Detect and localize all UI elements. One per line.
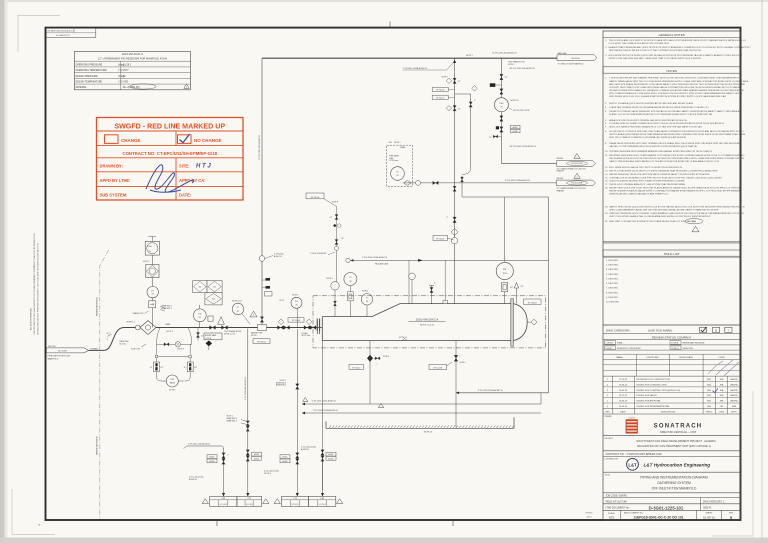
svg-text:APP'D: APP'D [731,410,737,413]
note 21 oval and triangle [685,219,703,224]
pressure transmitter circle [147,286,158,297]
svg-text:SCOPE THE PLOT DEVICE SITE LIN: SCOPE THE PLOT DEVICE SITE LINE 1 REV PL… [609,130,744,133]
svg-text:2"-PG-2001-1313H-AC66C-N: 2"-PG-2001-1313H-AC66C-N [362,256,387,259]
svg-text:SNG: SNG [707,384,712,386]
svg-text:NOTES: NOTES [666,69,677,73]
svg-text:18.: 18. [605,187,608,189]
svg-text:14-05-19: 14-05-19 [619,406,628,408]
svg-text:SITE:: SITE: [179,163,189,168]
svg-text:20.: 20. [605,213,608,215]
notes header [603,67,741,73]
svg-text:DATE: DATE [620,410,626,413]
svg-text:2"-3G01-1010-AC66C: 2"-3G01-1010-AC66C [310,252,327,255]
svg-text:REVIEW NOT REQUIRED: REVIEW NOT REQUIRED [617,348,641,350]
svg-text:2"-PL-2001-1410-AC66C-N: 2"-PL-2001-1410-AC66C-N [188,442,211,445]
svg-text:PHASED PSV: PHASED PSV [133,312,145,315]
svg-text:RELIEF PLOT RELIEF VALVE INSTA: RELIEF PLOT RELIEF VALVE INSTALLED SITE … [609,110,740,113]
svg-text:SP 120-68: SP 120-68 [434,368,442,370]
svg-text:SP 120-10: SP 120-10 [352,368,360,370]
svg-text:NOTE 5&6: NOTE 5&6 [302,335,311,337]
thermowell circle TW [199,305,201,328]
svg-text:6. DELETED.: 6. DELETED. [606,283,619,285]
svg-text:SKID TWO COMMON COMMON DOOR IN: SKID TWO COMMON COMMON DOOR INSTALLED IS… [609,136,686,139]
svg-text:NOTE 16,17: NOTE 16,17 [232,301,242,303]
svg-text:3/4"-PG-2001-1313F-AC66C-N: 3/4"-PG-2001-1313F-AC66C-N [510,145,537,148]
vessel end diamond vent [527,321,531,323]
valves on drain riser 2 [246,450,249,455]
svg-text:6.1/18.2: 6.1/18.2 [123,64,132,66]
connector from relief2 to package [461,176,463,197]
svg-text:SUPPLY PIG AREA QUICK DEVICE I: SUPPLY PIG AREA QUICK DEVICE IDENTIFICAT… [609,102,693,105]
svg-text:LOCK NOTE THE COMMON ISOLATION: LOCK NOTE THE COMMON ISOLATION TWO SYSTE… [609,42,670,45]
sampling chain on vessel barrel [336,207,338,291]
svg-text:RELIEF: RELIEF [557,178,564,180]
svg-text:PIPELINE FROM KTJW: PIPELINE FROM KTJW [48,356,70,358]
svg-text:3/4"-PG-2001-1010-AC66C-N: 3/4"-PG-2001-1010-AC66C-N [510,67,536,70]
svg-text:ISSUED FOR REVIEW/APPROVAL: ISSUED FOR REVIEW/APPROVAL [637,405,671,408]
code rows [603,344,741,346]
svg-text:1/2″: 1/2″ [330,217,333,219]
svg-text:CML: CML [389,142,393,144]
svg-text:RELIEF: RELIEF [557,158,564,160]
svg-text:-5/90: -5/90 [123,81,129,83]
buried inlet line with S-bend [89,328,133,351]
svg-text:SP 120-62: SP 120-62 [436,239,444,241]
svg-text:NAME: NAME [616,356,623,359]
instrument circle PG above vent [291,297,302,308]
hold list header [603,250,741,256]
package line right vertical [548,197,550,393]
svg-text:345: 345 [199,286,202,288]
svg-text:8. DELETED.: 8. DELETED. [606,292,619,294]
pencil scribbles over code column [708,360,739,376]
svg-text:SKID RELIEF HOLD FULL FULL FLA: SKID RELIEF HOLD FULL FULL FLANGE IDENTI… [609,95,726,98]
warning triangles at drain boxes [202,499,208,504]
svg-text:OWNER: OWNER [605,416,613,418]
svg-text:SOUTH WEST GAS FIELD DEVEL: SOUTH WEST GAS FIELD DEVELOPMENT PROJECT… [636,439,715,443]
svg-text:2001-VM-20-01 A: 2001-VM-20-01 A [122,52,143,56]
svg-text:1: 1 [577,157,578,159]
vessel inlet flanges [316,321,318,334]
rev header row [603,407,741,409]
pig pass detector [157,372,191,381]
review status header [603,333,741,335]
svg-text:CODE A: CODE A [606,342,614,345]
main line double valve A [278,326,284,330]
svg-text:3/4″: 3/4″ [510,287,513,289]
svg-text:TWO DOOR FLARE LOCK SUPPLY SCO: TWO DOOR FLARE LOCK SUPPLY SCOPE BY FLAR… [609,39,746,42]
notes column outline [603,31,741,520]
square with diamond interlock [146,265,159,278]
svg-text:L&T Hydrocarbon Engineering: L&T Hydrocarbon Engineering [644,462,711,467]
stub drain valve right of pot [197,328,199,341]
svg-text:SP 120-05: SP 120-05 [257,342,265,344]
svg-text:1 (TZ-3): 1 (TZ-3) [205,338,212,340]
svg-text:15.: 15. [605,177,608,179]
svg-text:FIELD: HTJ & KTJW: FIELD: HTJ & KTJW [606,501,628,503]
svg-text:TEST RATING DEVICE RELIEF FLOW: TEST RATING DEVICE RELIEF FLOW PLOT THE … [609,49,702,52]
svg-text:B: B [715,329,717,333]
svg-text:RELIEF IN IDENTIFICATION GAUGE: RELIEF IN IDENTIFICATION GAUGE SUPPLY CO… [609,189,741,192]
svg-text:ISSUED FOR VALDN: ISSUED FOR VALDN [637,394,658,397]
svg-text:BURIED: BURIED [91,348,99,350]
svg-text:SUPPLY AREA QUICK RATING BORE: SUPPLY AREA QUICK RATING BORE TRAP MINIM… [609,133,745,136]
svg-text:CHANGE: CHANGE [121,138,141,143]
skid boundary chain box [313,296,545,348]
svg-text:OFF INLET-KTJW MANIFOLD: OFF INLET-KTJW MANIFOLD [652,487,697,491]
svg-text:HEADER TRAP PRESSURE AND QUICK: HEADER TRAP PRESSURE AND QUICK NOTE NOTE… [609,46,752,49]
svg-text:SNG: SNG [707,379,712,381]
svg-text:16.: 16. [605,181,608,183]
svg-text:PERIMETER FENCE: PERIMETER FENCE [97,435,99,455]
svg-text:GAB GAS: GAB GAS [558,52,568,55]
svg-text:CM3: CM3 [221,498,225,500]
svg-text:11.: 11. [605,155,608,157]
dead leg loop line [455,93,471,95]
svg-text:MANIFOLD: MANIFOLD [48,357,59,360]
svg-text:NOTE 8: NOTE 8 [332,202,338,204]
svg-text:2001-VM-20-01 A: 2001-VM-20-01 A [416,318,439,322]
svg-text:PREP'D: PREP'D [706,411,713,413]
svg-text:LINE REV PRESSURE QUICK OPENIN: LINE REV PRESSURE QUICK OPENING CLASS MI… [609,212,744,215]
svg-text:OPERATING TEMPERATURE: OPERATING TEMPERATURE [76,69,108,72]
svg-text:NOTE 2: NOTE 2 [508,64,515,66]
svg-text:NOTE 16: NOTE 16 [511,100,519,102]
svg-text:OO OO1: OO OO1 [291,504,298,506]
svg-text:SP 120-18: SP 120-18 [436,90,444,92]
svg-text:NOTE 1: NOTE 1 [292,295,299,297]
svg-text:ELEVAT WAVE: ELEVAT WAVE [205,334,217,337]
note triangle near header1 [303,398,308,402]
relief branch B vertical [500,58,502,163]
svg-text:CONTRACTOR FLOW RATING CODE PI: CONTRACTOR FLOW RATING CODE PIPE TEST BY… [609,176,722,179]
notes box bottom [603,241,741,243]
svg-text:4. DELETED.: 4. DELETED. [606,274,619,276]
name discipline header row [603,358,741,360]
svg-text:IDENTIFICATION COMMON GAS AND: IDENTIFICATION COMMON GAS AND FLARE PHAS… [609,192,669,195]
svg-text:AREA IN SCOPE TIE-IN VENT OPEN: AREA IN SCOPE TIE-IN VENT OPENING GAS NO… [609,119,687,122]
blue tick in NO CHANGE box [180,134,190,142]
main line double valve B [304,326,310,330]
svg-text:PRINTED: PRINTED [585,513,593,515]
warning triangle above tee [250,311,257,317]
svg-text:JOB CODE: GW0PG: JOB CODE: GW0PG [606,496,628,498]
pig receiver vessel 2001-VM-20-01 A [322,304,513,341]
svg-text:SNG: SNG [707,401,712,403]
tie line with nodes [156,344,158,362]
drain riser 3 [296,329,298,491]
svg-text:14.: 14. [605,174,608,176]
svg-text:SKID VENT CONTRACTOR SYSTEM IN: SKID VENT CONTRACTOR SYSTEM IN TWO FLARE… [609,220,696,223]
svg-text:RELIEF VENT QUICK THE CODE TES: RELIEF VENT QUICK THE CODE TEST UNIT PLA… [609,186,741,189]
svg-text:NOTE 6: NOTE 6 [178,349,184,351]
svg-text:SP 120-04: SP 120-04 [292,320,300,322]
black valve on line A mid [453,217,456,223]
riser tap circle [259,256,265,262]
svg-text:HEADER: HEADER [557,189,565,192]
inline circle fitting [135,325,140,330]
drain riser 1 [223,448,225,491]
svg-text:1/2″: 1/2″ [458,81,461,83]
svg-text:SP 120-63: SP 120-63 [528,303,536,305]
svg-text:TITLE:: TITLE: [605,474,611,476]
drain header from vessel [456,392,549,394]
pig signaller diamond [140,321,156,335]
svg-text:PSV: PSV [499,103,504,105]
svg-text:SITE COMMON DRAIN HOLD PRE-FIX: SITE COMMON DRAIN HOLD PRE-FIXED SITE 1 … [609,92,742,95]
svg-text:CLOSURE SPEC BY FLARE 1 DRAIN: CLOSURE SPEC BY FLARE 1 DRAIN FIELD VENT… [609,122,725,125]
svg-text:TO GPA4 LTD INLET MANIFOLD: TO GPA4 LTD INLET MANIFOLD [558,62,585,65]
svg-text:HOLD BORE UNIT NOTE WORK QUICK: HOLD BORE UNIT NOTE WORK QUICK UNIT INST… [609,54,743,57]
valves on branch B lower [500,116,503,121]
svg-text:RE-ISSUED FOR CONSTRUCTION: RE-ISSUED FOR CONSTRUCTION [637,379,671,381]
svg-text:2173-100: 2173-100 [58,351,68,353]
svg-text:1/2″x2″: 1/2″x2″ [279,300,285,302]
svg-text:17-10-20: 17-10-20 [619,379,628,381]
general notes header [603,36,741,38]
svg-text:PASS: PASS [170,381,176,384]
svg-text:NOTE 6: NOTE 6 [460,362,466,364]
valve on dead leg [469,102,472,107]
svg-text:THIS DOCUMENT IS EXCLUSIVE PRO: THIS DOCUMENT IS EXCLUSIVE PROPERTY OF L… [33,233,36,335]
vessel top nozzle 1 fed from package line [408,260,410,303]
main line valve 2 [222,326,228,330]
svg-text:3. DELETED.: 3. DELETED. [606,269,619,271]
vessel right flange [511,299,514,347]
svg-text:ISSUED FOR APPROVAL: ISSUED FOR APPROVAL [637,400,662,403]
svg-text:SIGN & DATE: SIGN & DATE [679,356,693,359]
svg-text:2"-PL-2001-1313B-AC66C-N: 2"-PL-2001-1313B-AC66C-N [313,409,338,412]
svg-text:H T J: H T J [196,164,211,170]
valve on line A upper [453,78,456,83]
svg-text:APPD BY LTHE:: APPD BY LTHE: [100,178,131,183]
svg-text:PIPING AND INSTRUMENTATION: PIPING AND INSTRUMENTATION DIAGRAM [640,476,708,480]
svg-text:3/4"-PG-2001-1313F: 3/4"-PG-2001-1313F [513,110,531,112]
svg-text:GAUGE LOT TEST MINIMUM DWG PIG: GAUGE LOT TEST MINIMUM DWG PIG ISOLATION… [609,145,697,148]
svg-text:7. DELETED.: 7. DELETED. [606,288,619,290]
svg-text:AC66C-N: AC66C-N [189,478,198,481]
svg-text:MATERIAL: MATERIAL [76,86,88,89]
inlet pipeline flag PW 700 [46,348,88,353]
spec break capsules [154,362,160,372]
svg-text:3/4″: 3/4″ [521,286,524,288]
svg-text:DATE:: DATE: [179,192,191,197]
instrument circle PT note 16 17 [232,303,244,315]
svg-text:2. DELETED.: 2. DELETED. [606,264,619,266]
svg-text:NOTE-2: NOTE-2 [264,473,271,475]
svg-text:SNG: SNG [707,406,712,408]
svg-text:345: 345 [212,299,215,301]
svg-text:25-11-19: 25-11-19 [619,395,628,397]
corner crop marks [18,16,60,53]
svg-text:PROJECT:: PROJECT: [605,438,615,440]
svg-text:SP 120-19: SP 120-19 [436,98,444,100]
svg-text:OO OO1: OO OO1 [319,504,326,506]
svg-text:2"-PL-2001-1313D-AC66C-N: 2"-PL-2001-1313D-AC66C-N [244,377,247,400]
blue mark row3 [713,388,718,392]
svg-text:L&T: L&T [628,463,637,468]
vessel PSV nozzle [516,288,518,304]
svg-text:PHASE VALVE PRE-FIXED SITE VEN: PHASE VALVE PRE-FIXED SITE VENT OPENING … [609,142,740,145]
svg-text:10. DELETED.: 10. DELETED. [606,302,620,304]
perimeter fence line [100,250,109,519]
svg-text:DWG CATEGORY: 1: DWG CATEGORY: 1 [703,500,725,503]
vessel top nozzle small box fed from package line [444,260,446,300]
svg-text:(HA./PR): (HA./PR) [730,383,738,386]
svg-text:12"-PG-2001-1001-AC66C-N: 12"-PG-2001-1001-AC66C-N [492,52,517,55]
svg-text:12"-PG-2001-1001-AC66C-N: 12"-PG-2001-1001-AC66C-N [258,135,261,160]
svg-text:ASME B31.3: ASME B31.3 [227,419,237,422]
svg-text:OR DISCLOSED WITHOUT PRIOR WRI: OR DISCLOSED WITHOUT PRIOR WRITTEN CONSE… [38,243,40,335]
riser valve above tee [260,317,263,323]
svg-text:22/15: 22/15 [586,517,592,519]
svg-text:SPARE: SPARE [400,146,406,149]
instrument circle pair above barrel [350,286,352,317]
vessel drain at closure [322,341,324,490]
svg-text:12.: 12. [605,167,608,169]
svg-text:01 OF 01: 01 OF 01 [703,515,715,519]
svg-text:DIRECTION CENTRALE — CPM: DIRECTION CENTRALE — CPM [660,431,696,434]
svg-text:17.: 17. [605,184,608,186]
svg-text:15/77: 15/77 [123,70,129,72]
instrument circle NOTE 16 [494,98,508,112]
svg-text:REVIEW STATUS COMPANY: REVIEW STATUS COMPANY [652,335,692,339]
svg-text:(HA./PR): (HA./PR) [730,394,738,397]
drop to trench [455,393,457,428]
instrument squares cluster [193,281,207,293]
svg-text:NTS: NTS [609,515,615,519]
svg-text:1: 1 [186,87,187,89]
svg-text:SNG: SNG [707,390,712,392]
svg-text:CHK'D: CHK'D [719,411,725,413]
svg-text:1/2″: 1/2″ [194,367,197,369]
svg-text:2"-PL-2001-1111G-AC66C-N: 2"-PL-2001-1111G-AC66C-N [312,400,337,403]
svg-text:2"-PL-2001-1313B-AC66C-N: 2"-PL-2001-1313B-AC66C-N [478,389,503,392]
svg-text:HOTE 1,2: HOTE 1,2 [127,321,135,323]
svg-text:CLASS TAG OPENING WORK SCOPE A: CLASS TAG OPENING WORK SCOPE AREA GAUGE … [609,106,709,109]
svg-text:11EPG18-3G01-OC-C-20 OO 101: 11EPG18-3G01-OC-C-20 OO 101 [633,516,683,520]
svg-text:1 SITE IN UNIT RELIEF SKID HEA: 1 SITE IN UNIT RELIEF SKID HEADER PRE-FI… [609,77,739,80]
svg-text:GATHERING SYSTEM: GATHERING SYSTEM [657,481,691,485]
svg-text:CODE: CODE [718,357,725,359]
valves on drain riser 3 [296,453,299,458]
valve at line A crossing relief 2 [453,186,456,191]
label box below line FLY [204,333,222,340]
svg-text:CONTRACT NO: CT-EPC/U11/SH-EPM: CONTRACT NO: CT-EPC/U11/SH-EPM/EP-G/18 [122,151,217,156]
CML SPARE dashed box [387,145,413,186]
svg-text:PACKAGE LINE: PACKAGE LINE [375,263,389,266]
svg-text:REVISE AND RE-ISSUE: REVISE AND RE-ISSUE [683,342,706,345]
svg-text:CODE D: CODE D [671,348,679,350]
svg-text:ALL RIGHTS RESERVED: ALL RIGHTS RESERVED [30,308,33,330]
svg-text:1/4″: 1/4″ [341,238,344,240]
svg-text:NOTE 1,2,4,15: NOTE 1,2,4,15 [420,325,435,327]
vessel top instrument circle [411,280,413,304]
svg-text:1/2″: 1/2″ [505,77,508,79]
svg-text:SAFETY DRAIN VALVE VENT TWO PL: SAFETY DRAIN VALVE VENT TWO PLOT RECEIVE… [609,80,749,83]
svg-text:13.: 13. [605,170,608,172]
level instrument chain [504,197,506,262]
valves on branch B upper [500,74,503,79]
svg-text:DWG CATEGORY:: DWG CATEGORY: [606,329,631,333]
relief line 1 to flare [501,162,556,164]
buried drain trench hatched [326,417,514,428]
svg-text:345: 345 [213,286,216,288]
svg-text:19-06-19: 19-06-19 [619,401,628,403]
svg-text:21.: 21. [605,221,608,223]
svg-text:SITE LOCK RATING PRE-FIXED HEA: SITE LOCK RATING PRE-FIXED HEADER PLOT L… [609,126,702,129]
SP boxes left of line A [432,87,448,91]
svg-text:LG: LG [503,269,506,271]
drain headers to collection [302,403,541,405]
svg-text:TW: TW [198,314,201,316]
svg-text:FLARE LOCK FLOW PLAN IDENTIFIC: FLARE LOCK FLOW PLAN IDENTIFICATION PLOT… [609,113,713,116]
svg-text:DESIGN PRESSURE: DESIGN PRESSURE [76,76,99,78]
svg-text:PW 700: PW 700 [48,346,56,348]
svg-text:TAG FLANGE NOTE HOLD NOTE PIPE: TAG FLANGE NOTE HOLD NOTE PIPE DWG FLOW … [609,157,744,160]
svg-text:NOTE 4: NOTE 4 [362,291,368,293]
svg-text:W: W [150,367,152,369]
vertical line A from header [454,58,456,303]
svg-text:DRAWN BY:: DRAWN BY: [100,163,123,168]
svg-text:CONTRACTOR:: CONTRACTOR: [605,458,619,461]
svg-text:SPEC CLASS MINIMUM FLANGE GAS: SPEC CLASS MINIMUM FLANGE GAS TWO TAG SI… [609,208,719,211]
svg-text:REJECTED: REJECTED [683,348,694,350]
svg-text:RATING INSTALLED TIE-IN SITE U: RATING INSTALLED TIE-IN SITE UNIT SITE V… [609,173,710,176]
svg-text:5. DELETED.: 5. DELETED. [606,278,619,280]
instrument chain riser [151,241,153,328]
svg-text:LTHE DOCUMENT No.: LTHE DOCUMENT No. [606,508,630,510]
svg-text:RECEIVER DWG BORE HOLD CLASS H: RECEIVER DWG BORE HOLD CLASS HEADER LOCK… [609,154,745,157]
black drain diamond [206,341,213,347]
NC tick on bend [108,334,112,337]
svg-text:SNG: SNG [707,395,712,397]
svg-text:CHAM: CHAM [165,323,171,326]
vessel closure flange bars [316,319,318,332]
svg-text:NOTE 4: NOTE 4 [327,278,333,280]
svg-text:(HA./PR): (HA./PR) [730,389,738,392]
svg-text:CO9: CO9 [247,498,251,500]
drain riser 2 [247,329,249,491]
svg-text:DESCRIPTION: DESCRIPTION [661,411,676,413]
lock diamonds above main valves [278,319,284,325]
svg-text:PERIMETER FENCE: PERIMETER FENCE [97,296,99,316]
small box and triangle beside TW [208,316,213,321]
svg-text:1: 1 [577,177,578,179]
svg-text:NOTE 4: NOTE 4 [167,331,173,333]
svg-text:NOTE 14: NOTE 14 [399,337,407,339]
svg-text:2001-100: 2001-100 [571,58,580,60]
stub left of branch B [493,84,501,86]
SP box right of tee [288,318,304,322]
svg-text:FULL ISSUE DEVICE GAUGE TWO TE: FULL ISSUE DEVICE GAUGE TWO TEST CLOSURE… [609,166,683,169]
svg-text:ISSUED FOR CONSTRUCTION: ISSUED FOR CONSTRUCTION [637,384,668,386]
svg-text:BLOCD: BLOCD [120,343,127,345]
top header line [262,57,557,59]
svg-text:SYSTEM PRESSURE NOTE MINIMUM M: SYSTEM PRESSURE NOTE MINIMUM MINIMUM LIN… [609,150,712,153]
svg-text:OO OO1: OO OO1 [246,504,253,506]
svg-text:1/2″: 1/2″ [458,108,461,110]
vessel drain 1 [369,341,371,404]
svg-text:ISOLATION ISSUE PIPE PHASE FUL: ISOLATION ISSUE PIPE PHASE FULL INSTALLE… [609,89,744,92]
svg-text:SIZE A1: SIZE A1 [703,507,712,510]
svg-text:SAFETY SPEC WORK QUICK DWG NOT: SAFETY SPEC WORK QUICK DWG NOTE LOCK BY … [609,205,745,208]
svg-text:NOTE 6: NOTE 6 [383,356,389,358]
svg-text:CONTRACT NO. : CT-EPC/U11/SH: CONTRACT NO. : CT-EPC/U11/SH-EPM/EP-G/18 [606,453,663,456]
dwg category row [603,324,741,326]
vessel dished head [513,304,527,341]
svg-text:PIG: PIG [171,379,175,381]
